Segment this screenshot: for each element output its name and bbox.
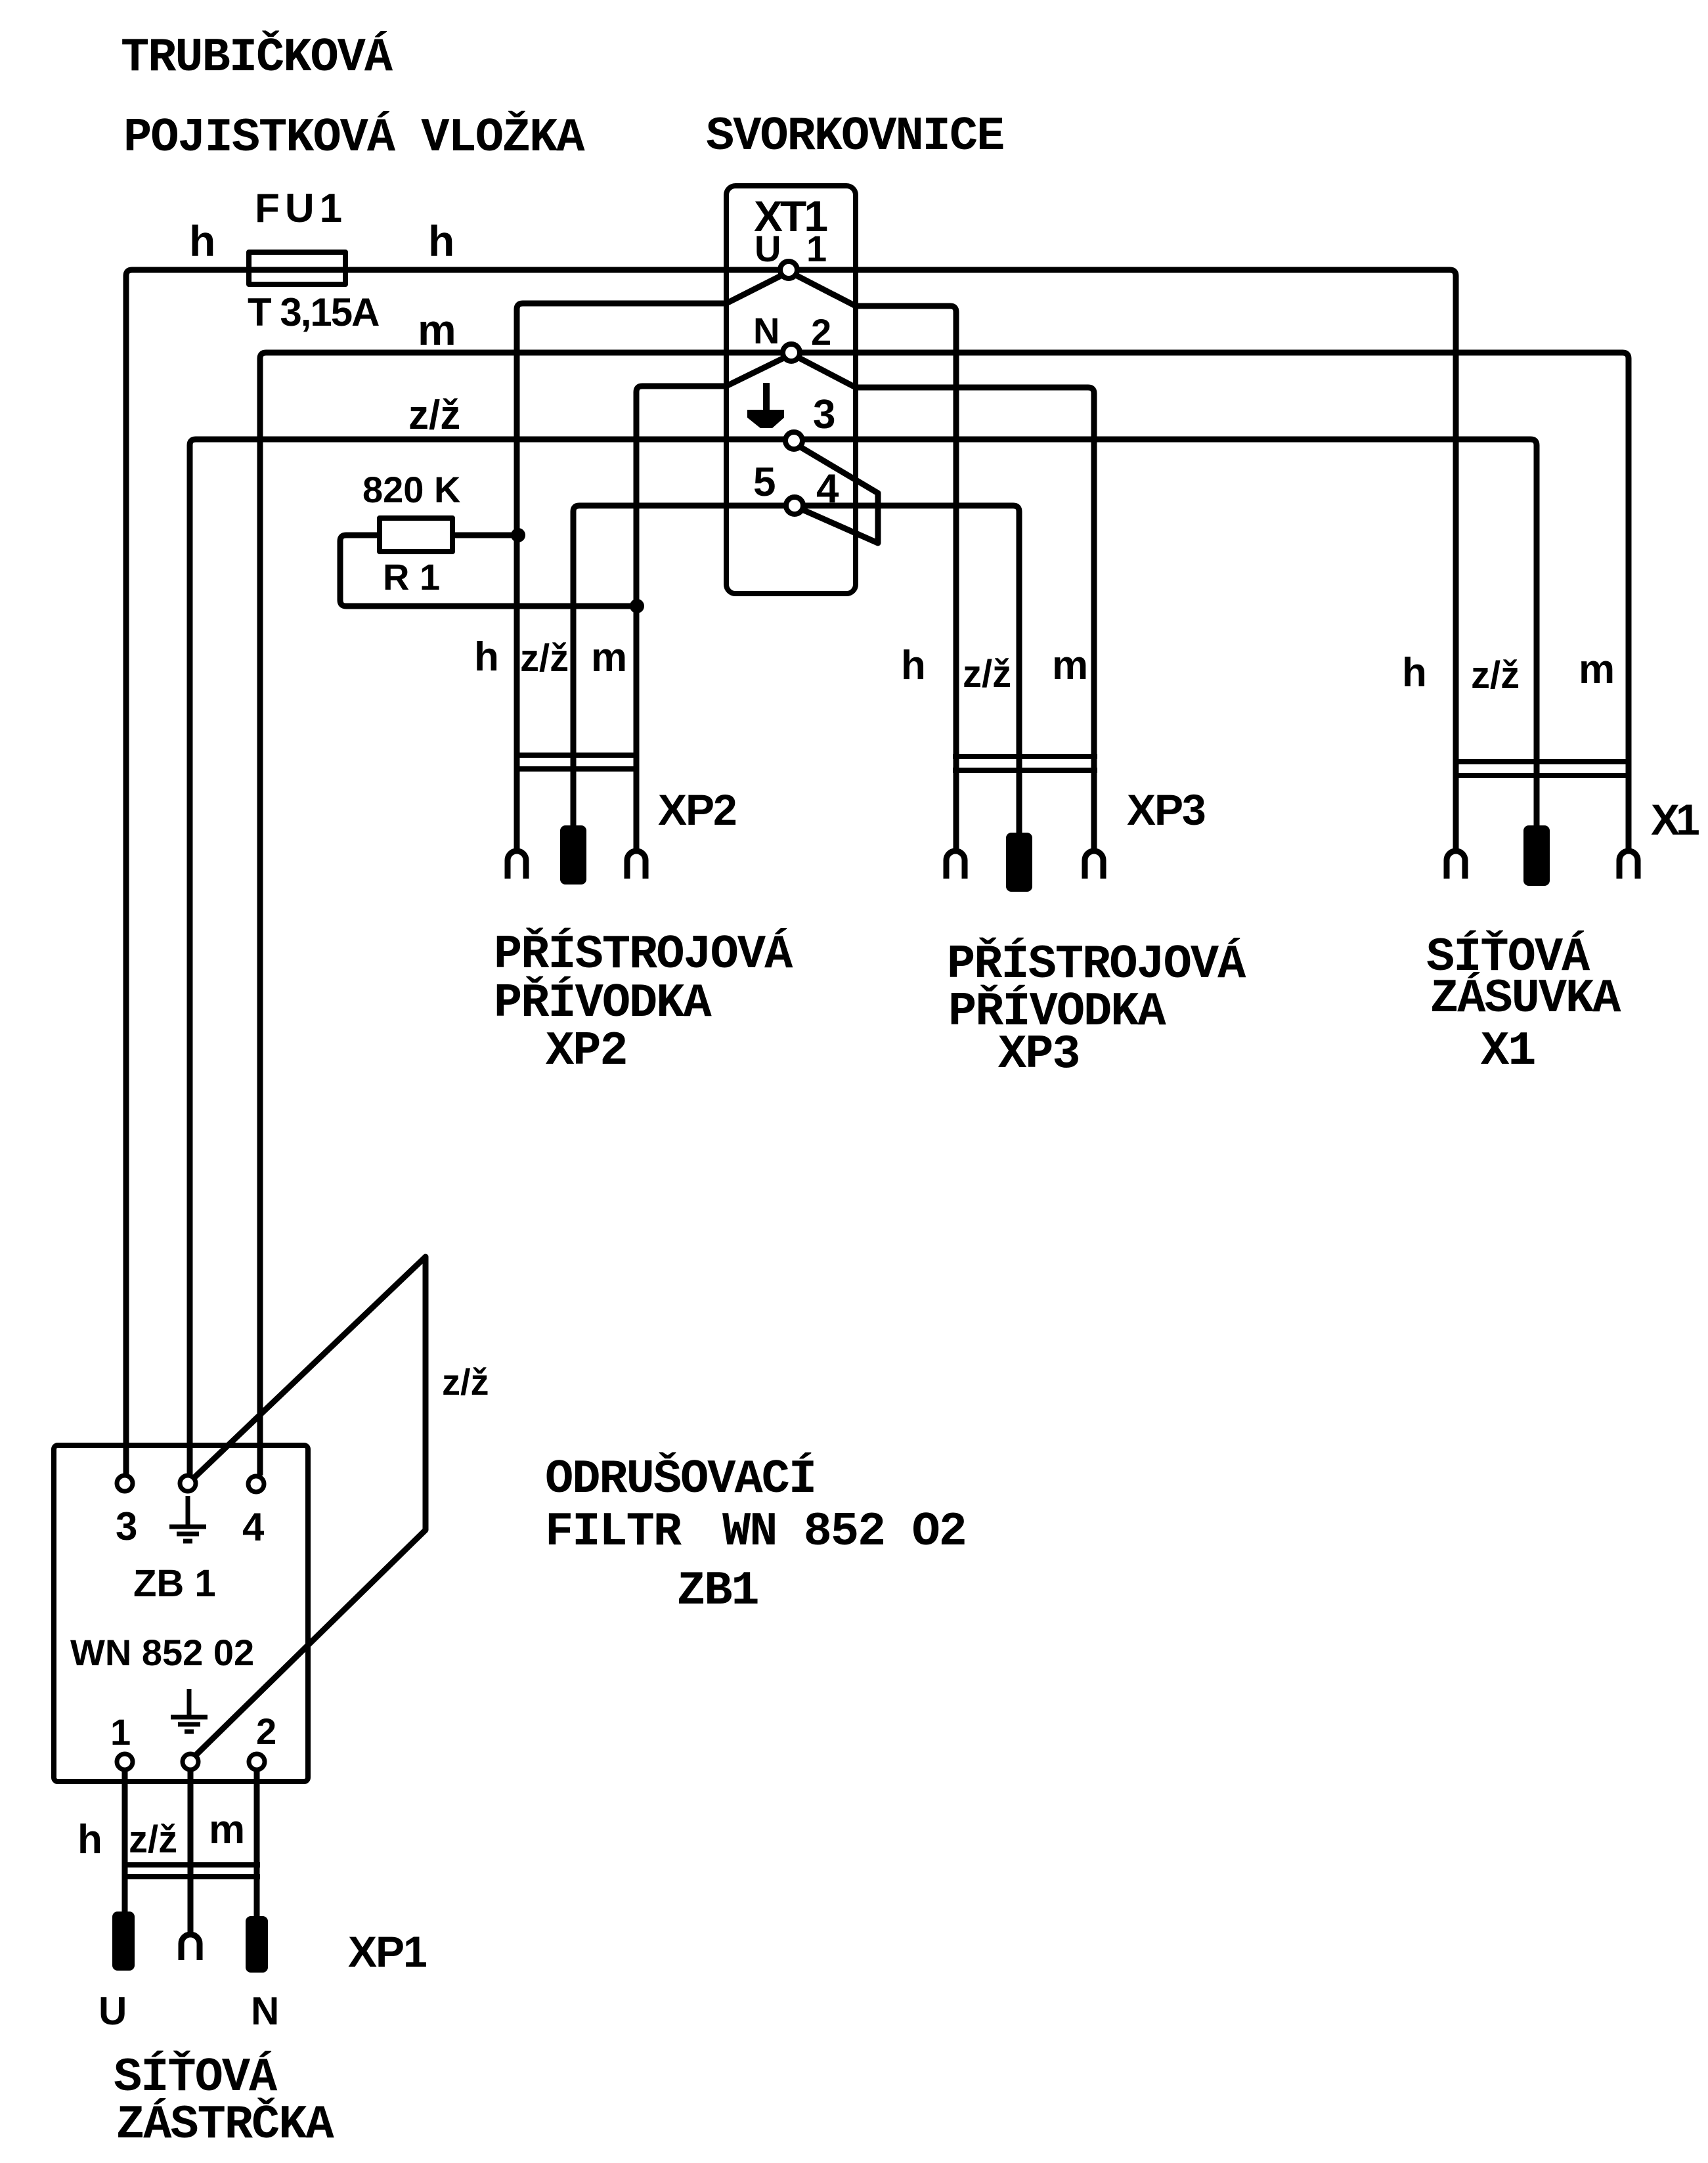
wire z/ž flag loop at ZB1 <box>194 1257 426 1756</box>
svg-text:XP3: XP3 <box>1127 785 1205 834</box>
link between XT1 terminals 3 and 4 <box>799 446 878 543</box>
svg-text:h: h <box>428 217 454 265</box>
contact pin XP1 N <box>246 1916 268 1973</box>
svg-text:TRUBIČKOVÁ: TRUBIČKOVÁ <box>121 30 393 85</box>
resistor R1 body <box>380 518 452 552</box>
contact pin X1 z/ž <box>1523 825 1550 886</box>
svg-text:5: 5 <box>753 460 776 505</box>
node XT1 U1 <box>780 261 797 278</box>
connector X1 cable double line <box>1453 762 1631 776</box>
svg-text:ZB1: ZB1 <box>677 1564 758 1618</box>
svg-text:ZB 1: ZB 1 <box>133 1562 216 1605</box>
svg-text:T 3,15A: T 3,15A <box>248 290 379 334</box>
svg-text:h: h <box>77 1817 102 1862</box>
svg-text:h: h <box>189 217 215 265</box>
contact fork X1 h <box>1447 851 1465 879</box>
svg-text:XP1: XP1 <box>348 1927 426 1976</box>
svg-text:X1: X1 <box>1481 1024 1535 1078</box>
svg-text:1: 1 <box>110 1711 131 1753</box>
wire XP1 z/ž <box>188 1770 194 1934</box>
filter ZB1 box <box>54 1445 308 1781</box>
node XT1 N2 <box>783 344 800 361</box>
contact fork XP1 earth <box>181 1934 200 1960</box>
svg-text:XP3: XP3 <box>998 1028 1080 1081</box>
svg-text:ZÁSUVKA: ZÁSUVKA <box>1430 972 1621 1026</box>
svg-text:z/ž: z/ž <box>442 1361 489 1403</box>
node ZB1 2 <box>249 1754 265 1770</box>
contact pin XP1 U <box>112 1912 135 1971</box>
svg-text:ODRUŠOVACÍ: ODRUŠOVACÍ <box>545 1452 816 1506</box>
svg-text:FILTR: FILTR <box>545 1505 682 1559</box>
svg-text:m: m <box>1579 647 1615 692</box>
wire R1 left lead and bottom loop to XP2 m <box>340 535 637 606</box>
svg-text:SÍŤOVÁ: SÍŤOVÁ <box>114 2050 278 2105</box>
junction R1 bottom on XP2 m <box>630 599 644 613</box>
svg-text:m: m <box>418 305 456 354</box>
fuse FU1 <box>249 252 345 284</box>
wire R1 right lead to XP2 h <box>452 533 518 538</box>
wire XP2 m branch from XT1 N2 <box>636 356 788 850</box>
svg-text:4: 4 <box>242 1505 265 1549</box>
svg-text:z/ž: z/ž <box>1471 654 1520 697</box>
svg-text:POJISTKOVÁ VLOŽKA: POJISTKOVÁ VLOŽKA <box>123 110 585 165</box>
terminal block XT1 box <box>726 186 856 594</box>
svg-text:m: m <box>209 1807 245 1852</box>
node ZB1 3 <box>117 1475 133 1491</box>
node ZB1 4 <box>248 1476 264 1492</box>
connector XP1 cable double line <box>122 1865 260 1877</box>
wire XP1 h <box>122 1770 128 1912</box>
node ZB1 1 <box>117 1754 133 1770</box>
junction R1 right on XP2 h <box>511 528 525 542</box>
svg-text:3: 3 <box>813 392 835 437</box>
wire XP1 m <box>254 1770 260 1916</box>
contact fork XP2 m <box>627 851 646 879</box>
svg-text:FU1: FU1 <box>255 186 347 231</box>
ground symbol ZB1 top <box>169 1496 206 1541</box>
contact pin XP2 z/ž <box>560 825 586 885</box>
contact fork X1 m <box>1619 851 1638 879</box>
wire z/ž earth: left vertical, top run, X1 drop <box>190 439 1537 1475</box>
svg-text:3: 3 <box>116 1504 137 1548</box>
svg-text:z/ž: z/ž <box>408 393 460 438</box>
svg-text:z/ž: z/ž <box>963 653 1011 695</box>
node ZB1 top earth <box>180 1475 196 1491</box>
svg-text:z/ž: z/ž <box>129 1818 177 1861</box>
svg-text:4: 4 <box>816 466 839 512</box>
wire m neutral: left vertical, top run, X1 drop <box>260 353 1629 1475</box>
svg-text:PŘÍVODKA: PŘÍVODKA <box>494 976 712 1030</box>
ground symbol ZB1 bottom <box>171 1689 208 1732</box>
svg-text:ZÁSTRČKA: ZÁSTRČKA <box>116 2097 334 2152</box>
svg-text:m: m <box>591 635 627 680</box>
svg-text:PŘÍSTROJOVÁ: PŘÍSTROJOVÁ <box>947 937 1246 992</box>
svg-text:2: 2 <box>256 1711 276 1752</box>
wire XP3 h branch from XT1 U1 <box>792 273 956 850</box>
svg-text:h: h <box>1402 650 1427 695</box>
svg-text:XP2: XP2 <box>658 785 736 834</box>
contact pin XP3 z/ž <box>1006 833 1032 892</box>
contact fork XP3 m <box>1085 851 1103 879</box>
node ZB1 bottom earth <box>183 1754 198 1770</box>
svg-text:z/ž: z/ž <box>520 637 569 680</box>
contact fork XP3 h <box>946 851 965 879</box>
svg-text:X1: X1 <box>1651 795 1699 844</box>
contact fork XP2 h <box>508 851 526 879</box>
svg-text:N: N <box>753 310 779 351</box>
svg-text:R 1: R 1 <box>383 556 440 598</box>
svg-text:U: U <box>755 228 781 269</box>
wire XP2 h branch from XT1 U1 <box>517 273 786 850</box>
svg-text:h: h <box>901 643 926 688</box>
svg-text:WN 852 02: WN 852 02 <box>70 1632 254 1673</box>
svg-text:PŘÍSTROJOVÁ: PŘÍSTROJOVÁ <box>494 927 793 982</box>
wire h live: left vertical, top run, X1 drop <box>126 270 1456 1475</box>
node XT1 3 <box>785 432 802 449</box>
svg-text:XP2: XP2 <box>546 1024 627 1078</box>
svg-text:WN 852 O2: WN 852 O2 <box>722 1505 966 1559</box>
node XT1 4 <box>786 497 803 514</box>
svg-text:U: U <box>99 1989 127 2033</box>
wire XP3 m branch from XT1 N2 <box>795 356 1094 850</box>
svg-text:m: m <box>1052 643 1088 688</box>
svg-text:2: 2 <box>811 311 831 353</box>
svg-text:820 K: 820 K <box>362 469 460 510</box>
svg-text:SVORKOVNICE: SVORKOVNICE <box>706 110 1003 164</box>
connector XP3 cable double line <box>953 756 1097 770</box>
svg-text:1: 1 <box>806 228 827 269</box>
svg-text:h: h <box>474 634 499 680</box>
wire terminal-4 branch: XP2 z/ž drop, run, XP3 z/ž drop <box>573 506 1019 834</box>
connector XP2 cable double line <box>514 755 639 769</box>
svg-text:N: N <box>251 1989 279 2033</box>
ground symbol XT1 terminal 3 arrow <box>747 383 784 428</box>
